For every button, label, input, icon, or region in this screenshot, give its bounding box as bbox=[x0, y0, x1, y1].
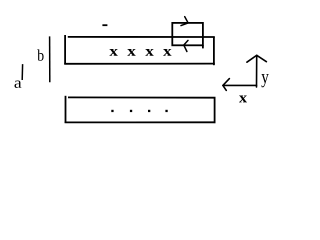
label b bbox=[37, 49, 43, 60]
y axis (vertical arrow up) bbox=[247, 55, 267, 87]
label x bbox=[239, 96, 247, 103]
a interval tick (vertical line) bbox=[21, 64, 23, 80]
top slab (conductor, B into page) bbox=[64, 35, 215, 65]
rectangular current loop bbox=[172, 23, 203, 45]
loop current arrow (top edge, pointing right) bbox=[181, 17, 188, 26]
bottom slab (conductor, B out of page) bbox=[65, 96, 216, 123]
loop current arrow (bottom edge, pointing left) bbox=[184, 40, 188, 51]
x axis (horizontal arrow left) bbox=[223, 79, 257, 91]
loop right-edge overshoot tail bbox=[202, 45, 204, 48]
label y bbox=[261, 74, 268, 87]
minus sign (negative charge label) bbox=[102, 24, 107, 26]
label a bbox=[15, 81, 22, 88]
b interval tick (vertical line) bbox=[49, 36, 51, 82]
x field marks inside top slab bbox=[109, 49, 171, 56]
dot field marks inside bottom slab bbox=[111, 110, 167, 112]
